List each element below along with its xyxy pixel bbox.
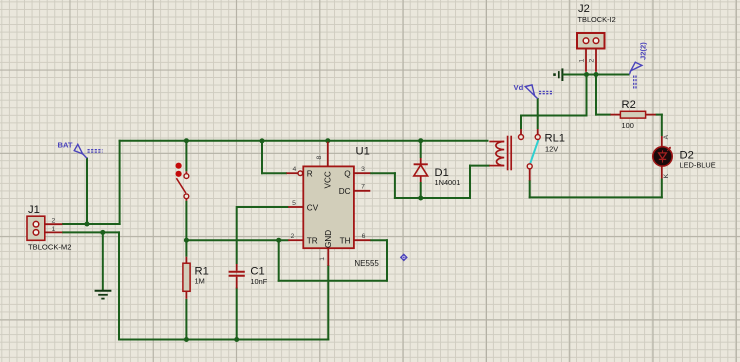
svg-text:100: 100 bbox=[622, 121, 634, 130]
node VCC/top-rail junction bbox=[325, 138, 330, 143]
diode D1 1N4001 bbox=[414, 158, 461, 187]
ground (left, at J1) bbox=[95, 291, 112, 299]
wire C1 bottom to rail bbox=[236, 288, 238, 341]
wire TR corner down bbox=[278, 239, 280, 282]
wire to relay NO contact horizontal bbox=[520, 115, 588, 117]
wire reset pin corner bbox=[261, 140, 287, 174]
wire CV horizontal run bbox=[237, 206, 289, 208]
wire TR-TH lower horizontal bbox=[278, 280, 388, 282]
connector J1 TBLOCK-M2 bbox=[27, 204, 71, 251]
wire D1 bottom link bbox=[420, 182, 422, 199]
svg-text:NE555: NE555 bbox=[354, 259, 379, 268]
wire TH run bbox=[370, 239, 388, 241]
svg-text:7: 7 bbox=[361, 184, 365, 191]
svg-text:CV: CV bbox=[307, 203, 319, 212]
wire up to relay coil bottom bbox=[469, 165, 471, 199]
LED D2 LED-BLUE bbox=[653, 134, 716, 178]
svg-text:J2(2): J2(2) bbox=[639, 42, 648, 60]
svg-text:8: 8 bbox=[316, 156, 323, 160]
wire R1 top link bbox=[185, 239, 187, 257]
power flag J2(2) bbox=[629, 42, 647, 89]
svg-text:TH: TH bbox=[340, 237, 351, 246]
svg-text:1: 1 bbox=[579, 59, 586, 63]
node R1/bottom-rail junction bbox=[184, 337, 189, 342]
wire top VCC rail bbox=[119, 140, 489, 142]
wire CV vertical to C1 bbox=[236, 206, 238, 264]
svg-text:R2: R2 bbox=[622, 99, 636, 111]
node switch/top-rail junction bbox=[184, 138, 189, 143]
svg-text:R: R bbox=[307, 170, 313, 179]
svg-text:2: 2 bbox=[589, 59, 596, 63]
svg-text:K: K bbox=[663, 173, 670, 178]
wire relay common down bbox=[529, 180, 531, 198]
svg-text:Q: Q bbox=[344, 170, 350, 179]
wire R1 bottom link bbox=[185, 299, 187, 341]
svg-text:TR: TR bbox=[307, 237, 318, 246]
svg-text:J1: J1 bbox=[28, 204, 40, 216]
svg-text:10nF: 10nF bbox=[250, 277, 267, 286]
wire LED anode vertical bbox=[661, 114, 663, 136]
svg-text:1M: 1M bbox=[195, 276, 205, 285]
svg-text:6: 6 bbox=[362, 233, 366, 240]
node J2 pin1/ground junction bbox=[584, 72, 589, 77]
wire Q output run bbox=[370, 172, 396, 174]
svg-text:2: 2 bbox=[291, 233, 295, 240]
wire J2 pin2 down bbox=[595, 75, 597, 116]
wire switch bottom to TR net bbox=[185, 201, 187, 241]
svg-text:TBLOCK-I2: TBLOCK-I2 bbox=[578, 15, 616, 24]
svg-text:GND: GND bbox=[324, 230, 333, 248]
svg-text:DC: DC bbox=[339, 187, 351, 196]
node TR/TH junction bbox=[276, 238, 281, 243]
relay RL1 12V bbox=[489, 129, 565, 181]
wire relay NO contact stub bbox=[520, 115, 522, 130]
resistor R2 100 bbox=[610, 99, 655, 130]
wire switch top connection bbox=[185, 140, 187, 172]
wire LED cathode bottom horizontal bbox=[529, 196, 663, 198]
wire vertical up to top rail bbox=[119, 140, 121, 225]
resistor R1 1M bbox=[183, 257, 209, 299]
node switch/R1/TR junction bbox=[184, 238, 189, 243]
wire TH corner down bbox=[386, 239, 388, 282]
wire D1 bottom horizontal bbox=[394, 197, 471, 199]
svg-text:U1: U1 bbox=[356, 146, 370, 158]
svg-text:1: 1 bbox=[52, 226, 56, 233]
wire R2 left link bbox=[595, 114, 611, 116]
node J1 pin1/ground junction bbox=[100, 230, 105, 235]
svg-text:RL1: RL1 bbox=[545, 133, 566, 145]
svg-text:3: 3 bbox=[361, 166, 365, 173]
wire Q corner down bbox=[394, 172, 396, 199]
wire Vd flag down to relay NC contact bbox=[537, 98, 539, 129]
svg-text:5: 5 bbox=[292, 200, 296, 207]
wire R2 right link bbox=[656, 114, 663, 116]
wire top ground run to J2 bbox=[563, 74, 630, 76]
svg-text:Vd: Vd bbox=[514, 83, 524, 92]
power flag BAT bbox=[58, 141, 103, 159]
node reset-wire/top-rail junction bbox=[260, 138, 265, 143]
wire vertical down to bottom rail bbox=[118, 231, 120, 340]
svg-text:C1: C1 bbox=[250, 265, 264, 277]
origin marker bbox=[400, 253, 408, 261]
svg-text:TBLOCK-M2: TBLOCK-M2 bbox=[28, 242, 71, 251]
svg-text:VCC: VCC bbox=[324, 171, 333, 188]
node D1/top-rail junction bbox=[418, 138, 423, 143]
node C1/bottom-rail junction bbox=[234, 337, 239, 342]
ground (top, at J2) bbox=[553, 68, 566, 81]
wire D1 top link bbox=[420, 140, 422, 158]
connector J2 TBLOCK-I2 bbox=[577, 3, 616, 72]
wire ground stem bbox=[102, 232, 104, 290]
wire J1 pin2 horizontal run bbox=[62, 223, 121, 225]
wire LED cathode vertical bbox=[661, 179, 663, 199]
wire BAT flag to node A vertical bbox=[86, 158, 88, 225]
wire J2 pin1 down bbox=[586, 75, 588, 117]
node J2 pin2 junction bbox=[594, 72, 599, 77]
wire bottom ground rail bbox=[118, 339, 329, 341]
svg-text:4: 4 bbox=[293, 166, 297, 173]
svg-text:2: 2 bbox=[52, 217, 56, 224]
wire TR horizontal run bbox=[186, 239, 288, 241]
switch SW1 (push contact) bbox=[176, 163, 189, 201]
node BAT/J1 pin2 junction bbox=[85, 222, 90, 227]
power flag Vd bbox=[514, 83, 554, 99]
svg-text:A: A bbox=[663, 134, 670, 139]
capacitor C1 10nF bbox=[229, 264, 268, 289]
svg-text:BAT: BAT bbox=[58, 141, 73, 150]
svg-text:J2: J2 bbox=[578, 3, 590, 15]
wire J1 pin1 horizontal run bbox=[62, 231, 120, 233]
svg-text:12V: 12V bbox=[545, 144, 558, 153]
wire relay coil bottom stub bbox=[469, 165, 490, 167]
op-amp timer U1 NE555 bbox=[286, 142, 379, 268]
svg-text:1: 1 bbox=[319, 257, 326, 261]
wire 555 GND to bottom rail bbox=[327, 265, 329, 341]
svg-text:LED-BLUE: LED-BLUE bbox=[680, 161, 716, 170]
svg-text:1N4001: 1N4001 bbox=[435, 178, 461, 187]
node D1/relay-coil junction bbox=[418, 196, 423, 201]
